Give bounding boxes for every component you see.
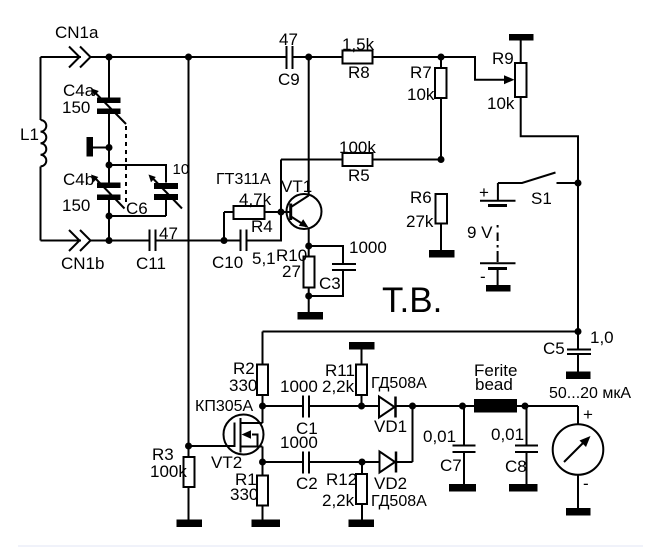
svg-text:VT1: VT1 — [281, 177, 312, 196]
node VT2 drain — [259, 403, 266, 410]
capacitor C4b (variable) — [62, 170, 125, 215]
ground below battery — [486, 285, 511, 292]
node C5 — [575, 328, 582, 335]
wire — [108, 200, 110, 241]
svg-text:C6: C6 — [126, 199, 148, 218]
resistor R4 — [224, 190, 281, 241]
svg-text:150: 150 — [62, 98, 90, 117]
svg-text:C7: C7 — [440, 456, 462, 475]
node S1 — [575, 180, 582, 187]
battery 9V — [467, 183, 516, 286]
svg-text:27: 27 — [282, 262, 301, 281]
capacitor C11 — [136, 224, 178, 273]
svg-text:1000: 1000 — [349, 238, 387, 257]
resistor R1 — [230, 462, 268, 520]
node R7-R6-R5 — [438, 156, 445, 163]
svg-text:10k: 10k — [407, 85, 435, 104]
wire R5 node down to base — [280, 160, 282, 241]
svg-text:C4b: C4b — [63, 170, 94, 189]
svg-text:4,7k: 4,7k — [239, 190, 272, 209]
svg-text:S1: S1 — [531, 189, 552, 208]
ground below R6 — [429, 250, 455, 258]
svg-text:1,0: 1,0 — [590, 328, 614, 347]
svg-text:27k: 27k — [406, 212, 434, 231]
resistor R11 — [322, 342, 375, 406]
resistor R3 — [150, 445, 195, 520]
resistor R6 — [406, 188, 447, 250]
svg-text:2,2k: 2,2k — [322, 491, 355, 510]
svg-text:R8: R8 — [348, 63, 370, 82]
trimmer stub bar — [87, 137, 110, 157]
svg-text:R9: R9 — [492, 49, 514, 68]
ground below C8 — [509, 484, 538, 492]
svg-text:R7: R7 — [410, 63, 432, 82]
transistor VT2 — [189, 398, 264, 472]
svg-text:330: 330 — [229, 376, 257, 395]
capacitor C7 — [423, 406, 476, 484]
svg-text:ГД508А: ГД508А — [371, 375, 427, 392]
wire C10 to base — [247, 212, 282, 241]
ground below R1 — [252, 520, 281, 528]
resistor R7 — [407, 57, 447, 160]
wire left vertical from CN1a to CN1b — [40, 57, 42, 120]
gang dashed link C4a-C4b — [125, 126, 127, 206]
svg-text:9 V: 9 V — [467, 223, 493, 242]
bottom faint strip — [18, 545, 643, 547]
node R12 top — [359, 459, 366, 466]
svg-text:+: + — [479, 183, 489, 202]
svg-text:R6: R6 — [410, 188, 432, 207]
transistor VT1 — [216, 171, 322, 229]
ground below meter — [566, 508, 591, 516]
capacitor C4a (variable) — [62, 81, 126, 124]
wire right vertical — [577, 183, 579, 332]
svg-text:R4: R4 — [251, 217, 273, 236]
svg-text:2,2k: 2,2k — [322, 377, 355, 396]
svg-text:100k: 100k — [339, 138, 376, 157]
inductor L1 — [41, 120, 47, 166]
resistor R5 — [281, 138, 441, 185]
node collector-top — [305, 54, 312, 61]
diode VD1 — [362, 375, 428, 436]
ground below R3 — [177, 520, 203, 528]
svg-text:bead: bead — [475, 375, 513, 394]
wire row to C10 — [156, 240, 241, 242]
svg-text:47: 47 — [279, 30, 298, 49]
svg-text:R5: R5 — [348, 166, 370, 185]
ground below C5 — [566, 372, 591, 380]
resistor R8 — [342, 35, 375, 82]
capacitor C9 — [278, 30, 300, 89]
svg-text:C8: C8 — [505, 457, 527, 476]
node CN1b — [106, 237, 113, 244]
svg-text:1,5k: 1,5k — [342, 35, 375, 54]
ground below R10 — [298, 312, 324, 320]
resistor R12 — [322, 462, 367, 520]
svg-text:Т.В.: Т.В. — [382, 281, 442, 320]
svg-text:1000: 1000 — [280, 377, 318, 396]
svg-text:100k: 100k — [150, 462, 187, 481]
wire top rail — [91, 56, 287, 58]
resistor R2 — [229, 332, 268, 407]
node top-gate — [185, 54, 192, 61]
connector CN1b — [41, 240, 82, 242]
svg-text:C2: C2 — [296, 474, 318, 493]
resistor R10 — [276, 246, 315, 312]
wire collector up — [308, 57, 310, 196]
capacitor C1 — [263, 377, 362, 438]
svg-text:-: - — [583, 474, 589, 493]
svg-text:VD1: VD1 — [374, 417, 407, 436]
svg-text:ГТ311А: ГТ311А — [216, 171, 271, 188]
node R7 top — [438, 54, 445, 61]
ground below R12 — [349, 520, 375, 528]
svg-text:CN1a: CN1a — [55, 23, 99, 42]
svg-text:C11: C11 — [136, 254, 166, 273]
meter PA1 — [553, 405, 604, 508]
svg-text:C3: C3 — [319, 274, 341, 293]
svg-text:КП305А: КП305А — [195, 398, 254, 415]
svg-text:10k: 10k — [487, 94, 515, 113]
capacitor C10 — [212, 230, 276, 273]
node gate R3 — [185, 443, 192, 450]
node R10 bottom — [305, 293, 312, 300]
svg-text:1000: 1000 — [280, 433, 318, 452]
wire supply rail — [263, 331, 579, 333]
svg-text:VD2: VD2 — [374, 474, 407, 493]
wire — [108, 57, 110, 98]
svg-text:C5: C5 — [543, 339, 565, 358]
node C6 top — [106, 162, 113, 169]
node C8 — [522, 403, 529, 410]
node base — [278, 209, 285, 216]
wire C6 loop — [109, 165, 166, 216]
node R4 left — [221, 237, 228, 244]
node C7 — [459, 403, 466, 410]
svg-text:50...20 мкА: 50...20 мкА — [549, 385, 631, 402]
node stub — [106, 144, 113, 151]
svg-text:+: + — [583, 405, 593, 424]
wire detector to bead — [413, 405, 579, 407]
capacitor C8 — [491, 406, 538, 484]
capacitor C3 — [309, 238, 387, 296]
svg-text:R12: R12 — [326, 470, 357, 489]
node R11 bottom — [358, 403, 365, 410]
capacitor C2 — [263, 433, 363, 493]
node detector out — [409, 403, 416, 410]
node VT2 source — [259, 459, 266, 466]
svg-text:10: 10 — [173, 161, 190, 178]
connector CN1a — [69, 47, 80, 68]
wire — [373, 57, 505, 80]
svg-text:150: 150 — [62, 196, 90, 215]
svg-text:CN1b: CN1b — [61, 254, 104, 273]
ferrite bead — [474, 361, 517, 413]
svg-text:5,1: 5,1 — [252, 249, 276, 268]
svg-text:L1: L1 — [20, 125, 39, 144]
switch S1 — [498, 173, 578, 209]
wire emitter down — [308, 228, 310, 257]
wire — [293, 56, 343, 58]
wire top rail left — [41, 56, 82, 58]
long vertical wire to gate — [188, 57, 190, 446]
svg-text:ГД508А: ГД508А — [371, 493, 427, 510]
svg-text:C9: C9 — [278, 70, 300, 89]
node top-left — [106, 54, 113, 61]
capacitor C6 (variable) — [126, 161, 189, 218]
node C6 bottom — [106, 213, 113, 220]
svg-text:-: - — [480, 267, 486, 286]
diode VD2 — [362, 406, 427, 510]
wire R9 to S1 node — [521, 97, 578, 183]
node emitter — [305, 243, 312, 250]
potentiometer R9 — [487, 34, 534, 113]
ground below C7 — [449, 484, 476, 492]
svg-text:0,01: 0,01 — [423, 427, 456, 446]
svg-text:330: 330 — [230, 485, 258, 504]
svg-text:0,01: 0,01 — [491, 425, 524, 444]
capacitor C5 — [543, 328, 614, 372]
svg-text:C10: C10 — [212, 253, 243, 272]
